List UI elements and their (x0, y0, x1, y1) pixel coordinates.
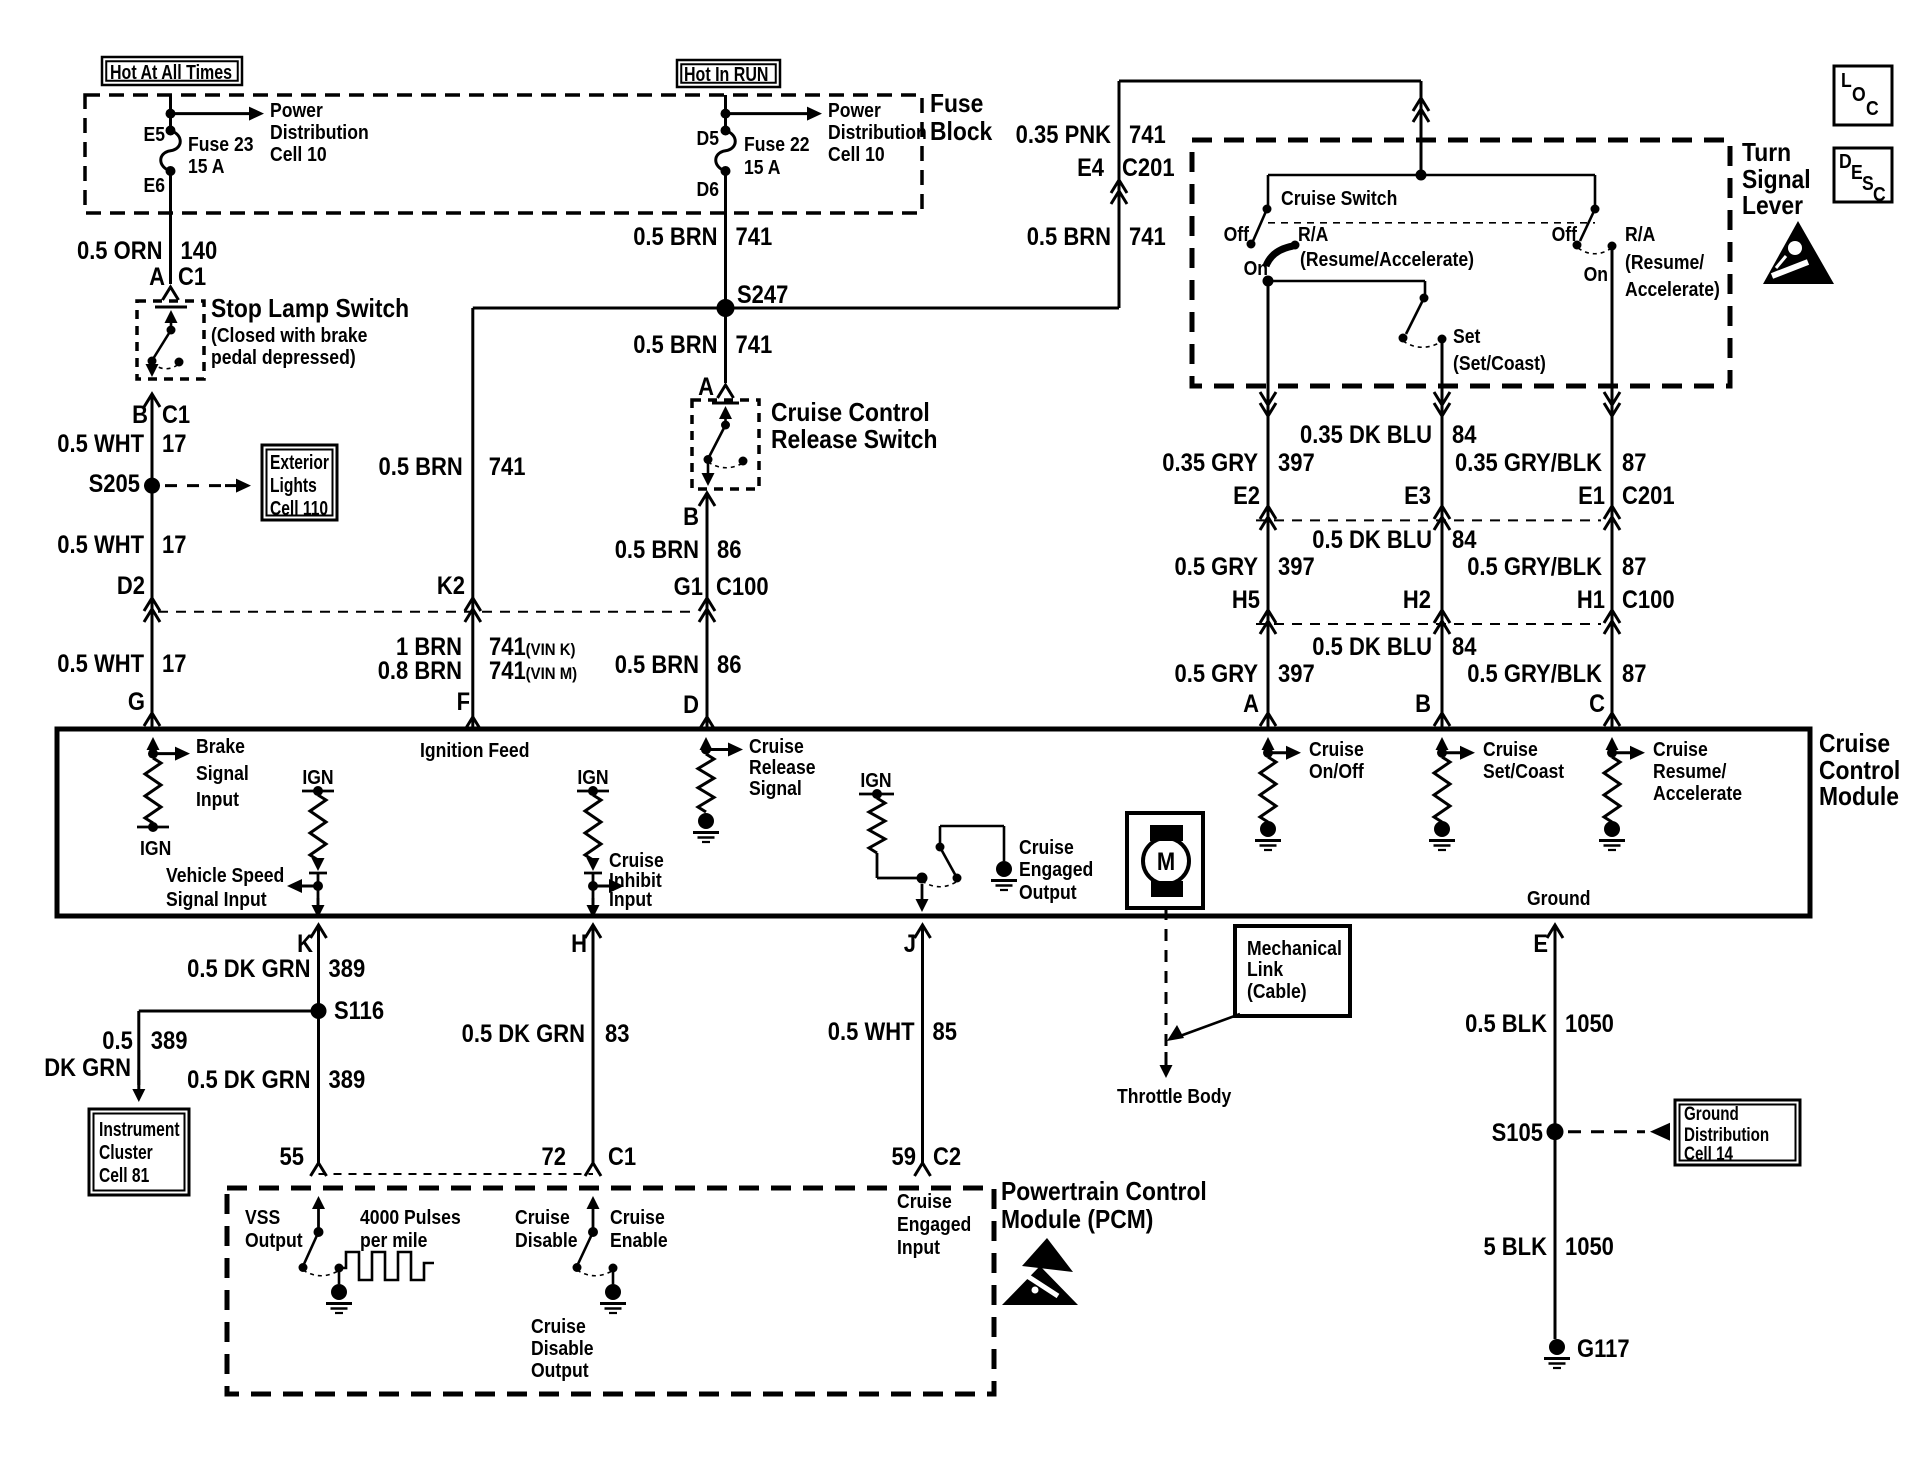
svg-text:Accelerate): Accelerate) (1625, 278, 1720, 300)
svg-text:R/A: R/A (1625, 223, 1656, 245)
svg-text:Cruise: Cruise (897, 1190, 952, 1212)
svg-text:IGN: IGN (140, 837, 171, 859)
svg-text:17: 17 (162, 531, 186, 559)
svg-text:Distribution: Distribution (270, 121, 369, 143)
svg-text:397: 397 (1278, 449, 1315, 477)
svg-text:84: 84 (1452, 421, 1476, 449)
svg-text:Set/Coast: Set/Coast (1483, 760, 1565, 782)
svg-text:IGN: IGN (302, 766, 333, 788)
svg-text:0.5 DK GRN: 0.5 DK GRN (187, 1066, 310, 1094)
svg-text:5 BLK: 5 BLK (1483, 1233, 1547, 1261)
svg-text:Throttle Body: Throttle Body (1117, 1085, 1232, 1107)
svg-text:87: 87 (1622, 660, 1646, 688)
svg-text:0.5 DK GRN: 0.5 DK GRN (187, 955, 310, 983)
svg-text:A: A (698, 373, 714, 401)
svg-text:85: 85 (933, 1018, 957, 1046)
svg-text:D5: D5 (697, 127, 719, 149)
svg-text:Output: Output (1019, 881, 1077, 903)
svg-text:15 A: 15 A (188, 155, 225, 177)
svg-text:Exterior: Exterior (270, 451, 329, 473)
svg-text:Signal: Signal (749, 777, 802, 799)
svg-text:Disable: Disable (515, 1229, 578, 1251)
svg-text:Turn: Turn (1742, 139, 1791, 168)
svg-text:72: 72 (542, 1143, 566, 1171)
svg-text:741: 741 (736, 223, 773, 251)
svg-text:0.5 BLK: 0.5 BLK (1465, 1010, 1547, 1038)
svg-text:86: 86 (717, 536, 741, 564)
svg-text:0.35 DK BLU: 0.35 DK BLU (1300, 421, 1432, 449)
svg-text:C2: C2 (933, 1143, 961, 1171)
svg-text:Input: Input (897, 1236, 941, 1258)
svg-text:D: D (1839, 150, 1852, 172)
svg-text:K2: K2 (437, 572, 465, 600)
svg-text:Lights: Lights (270, 474, 317, 496)
svg-text:0.5 ORN: 0.5 ORN (77, 237, 163, 265)
svg-text:DK GRN: DK GRN (44, 1054, 131, 1082)
svg-text:IGN: IGN (577, 766, 608, 788)
svg-text:Resume/: Resume/ (1653, 760, 1727, 782)
svg-text:S105: S105 (1492, 1119, 1543, 1147)
svg-text:G: G (128, 688, 145, 716)
svg-text:Cruise: Cruise (1653, 738, 1708, 760)
svg-text:0.5 WHT: 0.5 WHT (57, 531, 144, 559)
svg-text:Cruise: Cruise (531, 1315, 586, 1337)
svg-text:H5: H5 (1232, 586, 1260, 614)
svg-text:Cruise Control: Cruise Control (771, 399, 930, 428)
svg-text:Brake: Brake (196, 735, 245, 757)
svg-text:C1: C1 (178, 263, 206, 291)
svg-text:Output: Output (245, 1229, 303, 1251)
svg-text:741: 741 (1129, 223, 1166, 251)
svg-text:On/Off: On/Off (1309, 760, 1364, 782)
svg-text:59: 59 (892, 1143, 916, 1171)
svg-text:(Set/Coast): (Set/Coast) (1453, 352, 1546, 374)
svg-text:Off: Off (1224, 223, 1250, 245)
svg-text:Fuse: Fuse (930, 90, 983, 119)
svg-text:Off: Off (1552, 223, 1578, 245)
svg-text:Cluster: Cluster (99, 1141, 153, 1163)
svg-text:Accelerate: Accelerate (1653, 782, 1742, 804)
svg-text:0.5 GRY/BLK: 0.5 GRY/BLK (1467, 553, 1602, 581)
svg-text:83: 83 (605, 1020, 629, 1048)
svg-text:Cruise: Cruise (1483, 738, 1538, 760)
svg-text:IGN: IGN (860, 769, 891, 791)
svg-text:0.5 BRN: 0.5 BRN (1027, 223, 1111, 251)
svg-text:741: 741 (1129, 121, 1166, 149)
svg-text:(Resume/Accelerate): (Resume/Accelerate) (1300, 248, 1474, 270)
svg-text:0.5 WHT: 0.5 WHT (57, 650, 144, 678)
svg-text:Output: Output (531, 1359, 589, 1381)
svg-text:C1: C1 (162, 401, 190, 429)
svg-text:0.35 GRY/BLK: 0.35 GRY/BLK (1455, 449, 1602, 477)
svg-text:B: B (132, 401, 148, 429)
svg-text:Cell 10: Cell 10 (828, 143, 885, 165)
svg-text:J: J (904, 930, 916, 958)
svg-text:17: 17 (162, 430, 186, 458)
svg-text:Signal Input: Signal Input (166, 888, 267, 910)
svg-text:0.5 GRY/BLK: 0.5 GRY/BLK (1467, 660, 1602, 688)
svg-text:4000 Pulses: 4000 Pulses (360, 1206, 461, 1228)
svg-text:Input: Input (196, 788, 240, 810)
svg-text:Input: Input (609, 888, 653, 910)
svg-text:Release Switch: Release Switch (771, 426, 937, 455)
svg-text:C1: C1 (608, 1143, 636, 1171)
svg-text:Lever: Lever (1742, 192, 1803, 221)
svg-text:C100: C100 (1622, 586, 1675, 614)
svg-text:Cruise: Cruise (609, 849, 664, 871)
svg-text:1050: 1050 (1565, 1010, 1614, 1038)
svg-text:On: On (1584, 263, 1608, 285)
svg-text:Fuse 22: Fuse 22 (744, 133, 810, 155)
svg-text:C100: C100 (716, 573, 769, 601)
svg-text:B: B (1415, 690, 1431, 718)
svg-text:Hot In RUN: Hot In RUN (684, 63, 768, 85)
svg-text:397: 397 (1278, 660, 1315, 688)
svg-text:S: S (1862, 172, 1874, 194)
svg-text:397: 397 (1278, 553, 1315, 581)
svg-text:F: F (457, 688, 470, 716)
svg-text:G117: G117 (1577, 1335, 1630, 1363)
svg-text:S205: S205 (89, 470, 140, 498)
svg-text:E2: E2 (1233, 482, 1260, 510)
svg-text:C: C (1873, 183, 1886, 205)
svg-text:0.5 GRY: 0.5 GRY (1174, 553, 1258, 581)
svg-text:86: 86 (717, 651, 741, 679)
svg-text:1050: 1050 (1565, 1233, 1614, 1261)
svg-text:K: K (297, 930, 313, 958)
svg-text:C: C (1866, 97, 1879, 119)
svg-text:Cruise: Cruise (1019, 836, 1074, 858)
svg-text:C: C (1589, 690, 1605, 718)
svg-text:15 A: 15 A (744, 156, 781, 178)
svg-text:Cell 110: Cell 110 (270, 497, 328, 519)
svg-text:87: 87 (1622, 553, 1646, 581)
svg-text:0.8 BRN: 0.8 BRN (378, 657, 462, 685)
svg-text:0.5 DK GRN: 0.5 DK GRN (462, 1020, 585, 1048)
svg-text:Signal: Signal (1742, 166, 1811, 195)
svg-text:55: 55 (280, 1143, 304, 1171)
svg-text:Cell 81: Cell 81 (99, 1164, 149, 1186)
svg-text:Module (PCM): Module (PCM) (1001, 1206, 1153, 1235)
svg-text:Block: Block (930, 118, 993, 147)
svg-text:E1: E1 (1578, 482, 1605, 510)
svg-text:741: 741 (736, 331, 773, 359)
svg-text:87: 87 (1622, 449, 1646, 477)
svg-text:0.5 BRN: 0.5 BRN (615, 651, 699, 679)
svg-text:Distribution: Distribution (828, 121, 927, 143)
svg-text:Cruise: Cruise (749, 735, 804, 757)
svg-text:Engaged: Engaged (1019, 858, 1093, 880)
svg-text:E3: E3 (1404, 482, 1431, 510)
svg-text:per mile: per mile (360, 1229, 427, 1251)
svg-text:Ignition Feed: Ignition Feed (420, 739, 529, 761)
svg-text:Cruise: Cruise (610, 1206, 665, 1228)
svg-text:G1: G1 (674, 573, 703, 601)
svg-text:pedal depressed): pedal depressed) (211, 346, 356, 368)
svg-text:C201: C201 (1122, 154, 1175, 182)
svg-text:84: 84 (1452, 526, 1476, 554)
svg-text:H1: H1 (1577, 586, 1605, 614)
svg-text:O: O (1852, 83, 1866, 105)
svg-text:Cruise: Cruise (1819, 730, 1890, 759)
svg-text:Mechanical: Mechanical (1247, 937, 1342, 959)
svg-text:(Resume/: (Resume/ (1625, 251, 1705, 273)
svg-text:17: 17 (162, 650, 186, 678)
svg-text:E4: E4 (1077, 154, 1104, 182)
svg-text:0.35 PNK: 0.35 PNK (1016, 121, 1111, 149)
svg-text:Instrument: Instrument (99, 1118, 180, 1140)
svg-text:VSS: VSS (245, 1206, 280, 1228)
svg-text:H2: H2 (1403, 586, 1431, 614)
svg-text:0.5 WHT: 0.5 WHT (828, 1018, 915, 1046)
svg-text:Set: Set (1453, 325, 1481, 347)
svg-text:0.5 WHT: 0.5 WHT (57, 430, 144, 458)
svg-text:84: 84 (1452, 633, 1476, 661)
svg-text:B: B (683, 503, 699, 531)
svg-text:0.5 DK BLU: 0.5 DK BLU (1312, 633, 1432, 661)
svg-text:0.5 BRN: 0.5 BRN (378, 453, 462, 481)
svg-text:Module: Module (1819, 783, 1899, 812)
svg-text:Signal: Signal (196, 762, 249, 784)
svg-text:Cruise: Cruise (1309, 738, 1364, 760)
svg-text:Cell 10: Cell 10 (270, 143, 327, 165)
svg-text:0.35 GRY: 0.35 GRY (1162, 449, 1258, 477)
svg-text:389: 389 (329, 955, 366, 983)
svg-text:389: 389 (329, 1066, 366, 1094)
svg-text:Engaged: Engaged (897, 1213, 971, 1235)
svg-text:M: M (1157, 848, 1175, 876)
svg-text:741: 741 (489, 453, 526, 481)
svg-text:S247: S247 (737, 281, 788, 309)
svg-text:Hot At All Times: Hot At All Times (110, 61, 232, 83)
svg-text:Vehicle Speed: Vehicle Speed (166, 864, 284, 886)
svg-text:A: A (149, 263, 165, 291)
svg-text:D: D (683, 691, 699, 719)
svg-text:Disable: Disable (531, 1337, 594, 1359)
svg-text:D6: D6 (697, 178, 719, 200)
svg-text:Release: Release (749, 756, 816, 778)
svg-text:D2: D2 (117, 572, 145, 600)
svg-text:E: E (1851, 161, 1863, 183)
svg-text:S116: S116 (334, 997, 384, 1025)
svg-text:H: H (571, 930, 587, 958)
svg-text:Fuse 23: Fuse 23 (188, 133, 254, 155)
svg-text:Enable: Enable (610, 1229, 668, 1251)
svg-text:(Cable): (Cable) (1247, 980, 1307, 1002)
svg-text:Link: Link (1247, 958, 1284, 980)
svg-text:A: A (1243, 690, 1259, 718)
svg-text:0.5 GRY: 0.5 GRY (1174, 660, 1258, 688)
svg-text:E: E (1533, 930, 1548, 958)
svg-text:Cruise: Cruise (515, 1206, 570, 1228)
svg-text:Ground: Ground (1527, 887, 1591, 909)
svg-text:0.5 BRN: 0.5 BRN (633, 223, 717, 251)
svg-text:389: 389 (151, 1027, 188, 1055)
svg-text:R/A: R/A (1298, 223, 1329, 245)
svg-text:Stop Lamp Switch: Stop Lamp Switch (211, 295, 409, 324)
svg-text:Ground: Ground (1684, 1102, 1739, 1124)
svg-text:Cruise Switch: Cruise Switch (1281, 187, 1397, 209)
svg-text:Cell 14: Cell 14 (1684, 1142, 1733, 1164)
svg-text:140: 140 (181, 237, 218, 265)
svg-text:0.5 BRN: 0.5 BRN (615, 536, 699, 564)
svg-text:Power: Power (270, 99, 323, 121)
svg-text:E5: E5 (143, 123, 165, 145)
svg-text:E6: E6 (143, 174, 165, 196)
svg-text:Powertrain Control: Powertrain Control (1001, 1178, 1207, 1207)
svg-text:Control: Control (1819, 757, 1900, 786)
svg-text:0.5 BRN: 0.5 BRN (633, 331, 717, 359)
svg-text:On: On (1244, 257, 1268, 279)
svg-text:(Closed with brake: (Closed with brake (211, 324, 367, 346)
svg-text:C201: C201 (1622, 482, 1675, 510)
svg-text:0.5 DK BLU: 0.5 DK BLU (1312, 526, 1432, 554)
svg-text:L: L (1841, 69, 1852, 91)
svg-text:Power: Power (828, 99, 881, 121)
svg-text:0.5: 0.5 (102, 1027, 133, 1055)
